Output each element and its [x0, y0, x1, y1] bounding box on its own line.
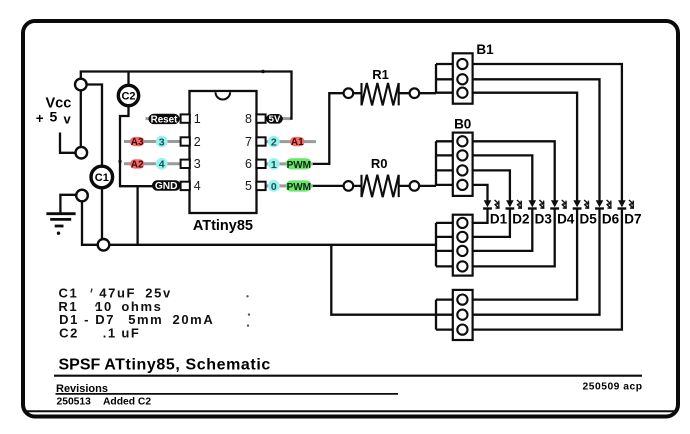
svg-text:D1: D1 — [490, 212, 508, 227]
svg-text:C1: C1 — [95, 172, 109, 184]
svg-text:v: v — [64, 112, 72, 127]
svg-text:D4: D4 — [557, 212, 575, 227]
svg-text:3: 3 — [194, 157, 201, 171]
svg-text:2: 2 — [271, 137, 277, 149]
svg-text:5: 5 — [245, 179, 252, 193]
svg-text:ATtiny85: ATtiny85 — [193, 218, 253, 234]
svg-text:PWM: PWM — [287, 182, 311, 193]
svg-text:7: 7 — [245, 135, 252, 149]
svg-text:D5: D5 — [579, 212, 597, 227]
svg-text:PWM: PWM — [287, 160, 311, 171]
svg-text:ATtiny85, Schematic: ATtiny85, Schematic — [104, 356, 271, 373]
svg-text:+: + — [36, 111, 44, 126]
svg-text:Reset: Reset — [151, 114, 178, 125]
svg-text:1: 1 — [194, 112, 201, 126]
svg-text:A3: A3 — [131, 137, 144, 148]
svg-text:.1: .1 — [103, 325, 117, 340]
svg-text:D3: D3 — [535, 212, 553, 227]
svg-text:4: 4 — [159, 159, 165, 171]
svg-text:Added C2: Added C2 — [103, 397, 151, 408]
svg-text:C2: C2 — [59, 325, 79, 340]
svg-text:B0: B0 — [454, 117, 471, 132]
svg-text:5V: 5V — [269, 114, 281, 125]
svg-text:4: 4 — [194, 179, 201, 193]
svg-text:0: 0 — [271, 181, 277, 193]
svg-text:D7: D7 — [624, 212, 641, 227]
svg-text:2: 2 — [194, 135, 201, 149]
svg-text:R0: R0 — [371, 156, 388, 171]
svg-text:D2: D2 — [512, 212, 529, 227]
svg-text:uF: uF — [121, 325, 140, 340]
svg-text:C2: C2 — [121, 90, 135, 102]
svg-text:250513: 250513 — [57, 397, 92, 408]
svg-text:A1: A1 — [291, 137, 304, 148]
svg-text:3: 3 — [159, 136, 165, 148]
svg-text:A2: A2 — [131, 159, 144, 170]
svg-text:20mA: 20mA — [173, 312, 215, 327]
svg-text:D6: D6 — [602, 212, 620, 227]
svg-text:B1: B1 — [476, 42, 494, 57]
svg-text:GND: GND — [155, 181, 178, 192]
svg-text:5: 5 — [50, 109, 58, 125]
svg-text:R1: R1 — [372, 67, 389, 82]
svg-text:1: 1 — [271, 159, 277, 171]
svg-text:8: 8 — [245, 112, 252, 126]
svg-text:6: 6 — [245, 157, 252, 171]
svg-text:SPSF: SPSF — [59, 356, 101, 373]
svg-text:250509 acp: 250509 acp — [583, 381, 643, 392]
